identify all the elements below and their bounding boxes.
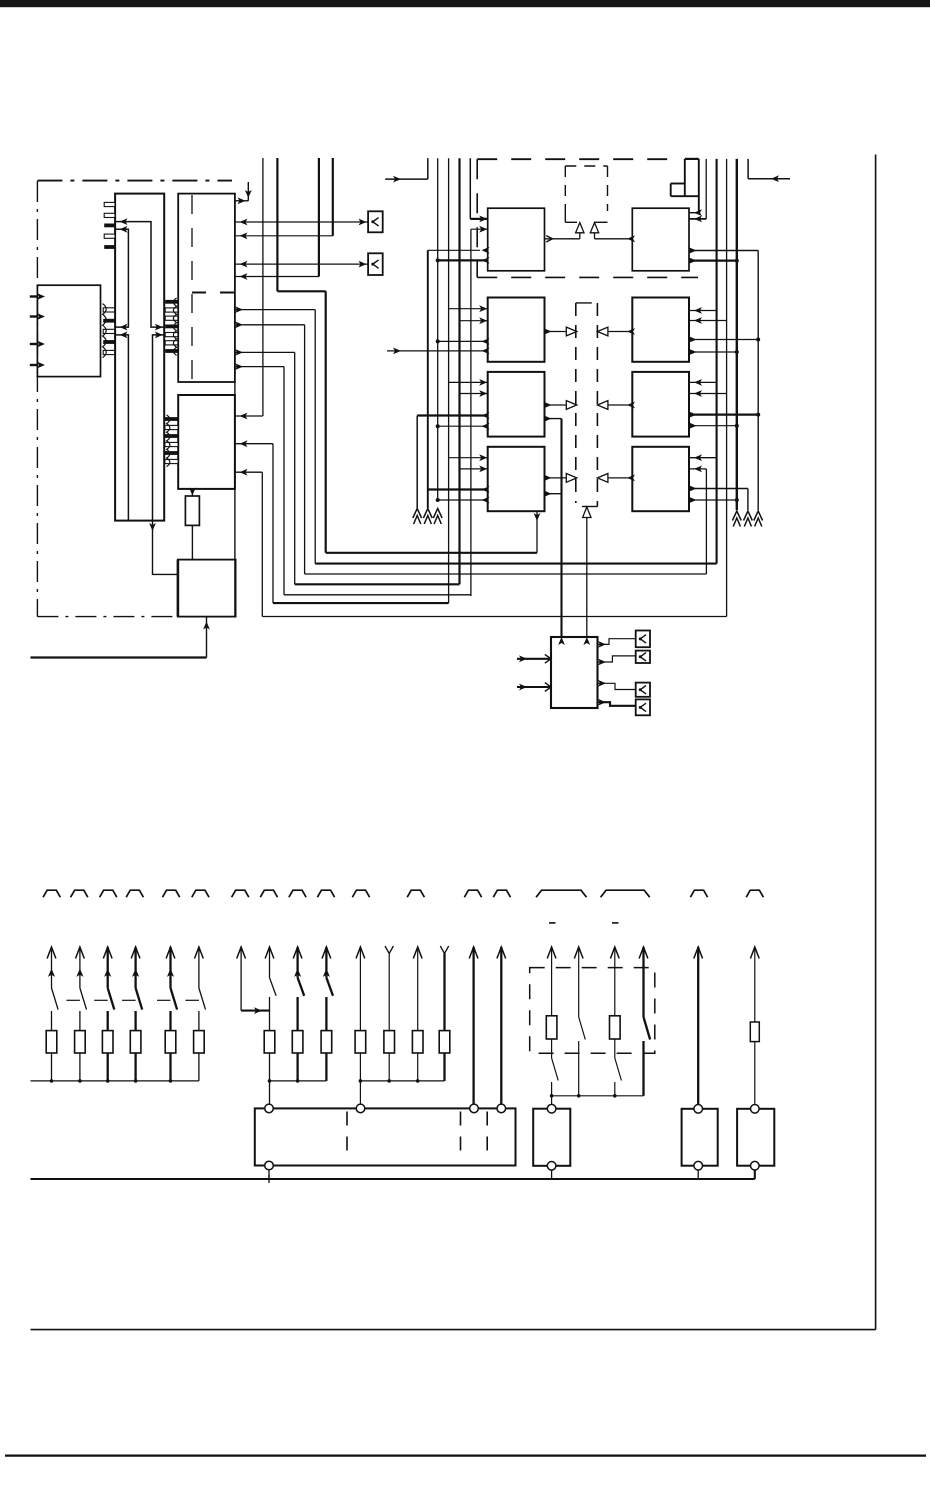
branch 22 with fuse [750, 947, 759, 959]
connector box X6 [636, 699, 650, 715]
wire E input left 1 [517, 658, 551, 660]
centre dashed rail right [596, 303, 598, 507]
wire row left output to centre rail [545, 331, 566, 333]
bundle wire 4 [295, 583, 460, 585]
branch 19 [610, 947, 619, 959]
outer dashed box bottom [477, 276, 698, 278]
wire bus x460 tap [460, 468, 488, 470]
block C1 [178, 194, 235, 382]
wire centre rail to row right input [608, 331, 632, 333]
common right rail C1-C2-D [234, 382, 236, 617]
block U6 (right column) [632, 298, 689, 362]
block U4 (left column) [488, 447, 545, 511]
wire bus x438 tap [438, 499, 488, 501]
block C2 [178, 395, 235, 489]
earth bus [31, 1178, 755, 1180]
wire bus x737 tap [689, 260, 737, 262]
branch 14 [440, 946, 448, 954]
wire E output 4 [598, 702, 636, 706]
bus x428 top stub [427, 158, 429, 179]
fuse cap symbols row [43, 890, 60, 897]
wire C2 pin to bundle 7 [235, 471, 262, 473]
wire TB2 to earth bus [551, 1170, 553, 1179]
wire E output 3 [598, 683, 636, 689]
wide fuse cap 2 [601, 890, 650, 897]
row1 left coupling [564, 209, 566, 223]
bus vertical x277 with jog to bundle 1 [276, 158, 278, 291]
wire bus x428 tap row1 [428, 249, 480, 251]
wire C1 pin from bus [235, 276, 319, 278]
ground rail [31, 656, 207, 658]
row1 right coupling [594, 221, 607, 223]
wire E input left 2 [517, 686, 551, 688]
bus x428 lower run [427, 250, 429, 508]
connector box X1 [368, 211, 383, 232]
wire C1 out pin 4 [235, 366, 284, 368]
wire row3 aux output to block E [545, 418, 562, 420]
wire centre rail to row right input [608, 477, 632, 479]
wire C1 top feed stub [247, 182, 249, 201]
block U1 (left column) [488, 208, 545, 271]
wire centre rail to row right input [608, 404, 632, 406]
centre dashed rail top tie [576, 302, 598, 304]
block U5 (right column) [632, 208, 689, 271]
branch 21 direct [694, 947, 703, 959]
centre rail bottom tick [582, 506, 597, 508]
bus x460 [458, 158, 460, 584]
wire E output 2 [598, 656, 636, 662]
bus x470 lower [470, 229, 472, 596]
wire bus x460 tap [460, 393, 488, 395]
block C1 dashed divider vertical [191, 195, 193, 381]
bus vertical x319 [318, 158, 320, 277]
bus x470 upper [469, 158, 471, 219]
bus x417 row3 feed [416, 416, 418, 509]
wire bus x438 tap [438, 259, 488, 261]
branch 13 [413, 947, 422, 959]
distribution branch with switch and fuse [131, 947, 140, 959]
dashed option box [530, 968, 655, 1054]
distribution branch with switch and fuse [166, 947, 175, 959]
frame bottom border [31, 1329, 876, 1331]
branch 10 [322, 947, 331, 959]
wire row4 bottom output to bundle 1 [536, 511, 538, 553]
branch 11 [356, 947, 365, 959]
wire C2 to resistor R1 [191, 489, 193, 496]
block A [37, 285, 100, 376]
wire bus x737 tap [689, 351, 737, 353]
terminal strip TB3 [682, 1109, 718, 1166]
bundle wire 7 [262, 616, 726, 618]
bus vertical x263 to C2 pin [262, 158, 264, 416]
branch bus mid-left [270, 1080, 327, 1082]
block A input pins [30, 295, 38, 297]
wire E output 1 [598, 639, 636, 645]
TB1 terminals [265, 1104, 274, 1113]
wire riser to bundle 5 [283, 367, 285, 595]
TB1 dashed dividers [346, 1112, 348, 1155]
wire bus x438 tap [438, 425, 488, 427]
branch bus left [31, 1080, 199, 1082]
page footer rule [5, 1454, 926, 1456]
branch 16 direct [497, 947, 506, 959]
bus x727 [726, 159, 728, 617]
frame right border [875, 155, 877, 1330]
distribution branch with switch and fuse [76, 947, 85, 959]
inner dashed box row1 [565, 165, 607, 167]
dashed enclosure left edge [36, 181, 38, 617]
off-page arrow into row2 [387, 350, 488, 352]
wire row left output to centre rail [545, 477, 566, 479]
wire bus x737 tap [689, 499, 737, 501]
wire bus x428 tap row4 [428, 488, 488, 490]
connector pins A-B [103, 308, 115, 312]
connector box X3 [636, 631, 650, 648]
wire riser to bundle 4 [294, 352, 296, 584]
bus x748 lower stub [747, 489, 749, 511]
distribution branch with switch and fuse [103, 947, 112, 959]
connector arcs B-C1 [173, 298, 176, 355]
wire TB4 to earth bus [754, 1170, 756, 1179]
block B [115, 194, 164, 521]
wire bus x438 tap [438, 340, 488, 342]
branch 17 [547, 947, 556, 959]
bundle wire 5 [284, 594, 471, 596]
block B internal link 4 [153, 335, 165, 521]
bundle wire 3 [305, 573, 707, 575]
wire bus x758 tap [689, 414, 758, 416]
bus x737 [736, 159, 738, 510]
off-page arrow into bus x428 [385, 178, 428, 180]
wire C1 pin from bus [235, 235, 333, 237]
wire bus x460 tap [460, 320, 488, 322]
wire C2 pin to bundle 6 [235, 443, 273, 445]
branch pair 7-8 [237, 947, 246, 959]
connector box X4 [636, 651, 650, 663]
connector box X2 [368, 253, 383, 275]
block B left pin stubs [104, 202, 115, 206]
centre dashed rail left [575, 303, 577, 503]
wire riser to bundle 3 [304, 325, 306, 574]
wire B output to block D [153, 521, 178, 575]
bus x758 [757, 251, 759, 511]
distribution branch with switch and fuse [47, 947, 56, 959]
outer dashed box top [477, 158, 672, 160]
wire row left output to centre rail [545, 404, 566, 406]
wire row4 aux output [545, 493, 562, 495]
branch 12 [385, 946, 393, 954]
wire TB3 to earth bus [697, 1170, 699, 1179]
outer dashed box left [476, 159, 478, 277]
block B internal link 3 [115, 335, 128, 521]
branch bus mid-right [360, 1080, 444, 1082]
distribution branch with switch and fuse [195, 947, 204, 959]
branch bus dashed group [552, 1095, 644, 1097]
resistor R1 [185, 496, 199, 525]
bus x699 [698, 159, 700, 213]
wire bus x737 tap [689, 425, 737, 427]
wire D bottom to ground rail [206, 617, 208, 658]
block C1 dashed divider horizontal [192, 292, 235, 294]
bus x706 lower [705, 469, 707, 574]
wire bus x717 tap [689, 457, 717, 459]
branch 15 direct [469, 947, 478, 959]
bundle wire 2 [315, 563, 716, 565]
wire bus x449 tap [449, 381, 488, 383]
step connector at dashed boundary [684, 159, 686, 196]
polarity mark 1 [549, 922, 556, 924]
bus x438 [437, 158, 439, 500]
wire bus x449 tap [449, 457, 488, 459]
wire C1 out pin 1 [235, 309, 315, 311]
wire bus x727 tap [689, 320, 727, 322]
bundle wire 6 [273, 602, 449, 604]
connector arcs B-C2 [167, 415, 170, 467]
branch 20 [639, 947, 648, 959]
branch 9 [293, 947, 302, 959]
block U8 (right column) [632, 447, 689, 511]
polarity mark 2 [612, 922, 619, 924]
block B internal link 2 [115, 229, 128, 327]
bus vertical x333 [332, 158, 334, 236]
block E [551, 637, 598, 708]
wire bus x727 tap [689, 393, 727, 395]
page header bar [0, 0, 930, 7]
branch 18 [574, 947, 583, 959]
terminal strip TB1 [255, 1108, 516, 1165]
centre rail output triangle [583, 507, 591, 518]
bus x706 upper [705, 159, 707, 219]
bundle wire 1 [326, 552, 537, 554]
off-page arrow right [747, 159, 749, 179]
block D [178, 560, 236, 617]
block U2 (left column) [488, 298, 545, 362]
wire row1 left output [545, 238, 580, 240]
wire C1 pin to connector box X2 [235, 263, 368, 265]
wide fuse cap 1 [536, 890, 586, 897]
wire row1 right output [595, 238, 633, 240]
connector pins B-C1 [165, 300, 178, 304]
wire bus x449 tap [449, 308, 488, 310]
wire C1 pin to connector box X1 [235, 221, 368, 223]
connector arcs A-B [103, 304, 107, 358]
block U7 (right column) [632, 372, 689, 437]
dashed enclosure top edge [37, 180, 232, 182]
wire TB1 to earth bus [268, 1170, 270, 1179]
block U3 (left column) [488, 372, 545, 437]
wire bus x758 tap [689, 339, 758, 341]
block B internal link 1 [115, 222, 164, 328]
wire bus x717 tap [689, 310, 717, 312]
wire riser to bundle 2 [314, 310, 316, 564]
wire C1 out pin 3 [235, 351, 295, 353]
dashed enclosure bottom edge [37, 616, 178, 618]
wire C1 out pin 2 [235, 324, 305, 326]
terminal strip TB2 [533, 1109, 570, 1166]
terminal strip TB4 [737, 1109, 774, 1166]
wire row3 right input [689, 381, 717, 383]
wire R1 to block D [191, 525, 193, 559]
bus x717 [716, 159, 718, 564]
connector box X5 [636, 683, 650, 697]
connector pins B-C2 [165, 417, 178, 421]
bus x449 [448, 158, 450, 603]
